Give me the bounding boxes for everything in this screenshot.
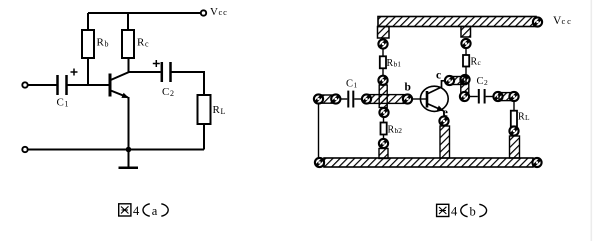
- svg-text:C: C: [477, 76, 484, 87]
- capacitor C2: [162, 62, 171, 82]
- svg-text:a: a: [152, 204, 158, 218]
- eyelet RL top node: [509, 92, 518, 101]
- junction dot (a): [126, 147, 132, 153]
- eyelet collector node: [445, 76, 454, 85]
- wire C1 to base: [67, 84, 111, 86]
- eyelet below RL (b): [509, 126, 518, 135]
- stub RL to ground bar: [510, 136, 520, 158]
- resistor Rb2: [381, 123, 387, 135]
- svg-text:b: b: [470, 205, 476, 219]
- input terminal (a): [22, 82, 27, 87]
- ground-right eyelet: [532, 158, 541, 167]
- wire C2 to RL: [171, 72, 205, 95]
- svg-text:c: c: [145, 40, 149, 49]
- svg-text:V: V: [210, 6, 218, 18]
- eyelet node b: [403, 94, 412, 103]
- plus sign C2: [153, 60, 160, 67]
- svg-text:b: b: [105, 40, 109, 49]
- ground-left eyelet: [315, 158, 324, 167]
- svg-text:e: e: [443, 107, 448, 119]
- wire b eyelet to base: [412, 98, 427, 100]
- plus sign C1: [71, 69, 78, 76]
- faint page edge line: [591, 0, 593, 241]
- eyelet left of base junction: [362, 94, 371, 103]
- eyelet emitter node: [439, 116, 448, 125]
- label Rc: [137, 37, 149, 49]
- svg-text:cc: cc: [219, 7, 228, 17]
- top bus bar (b): [378, 17, 536, 27]
- transistor Q1 (b) emitter stroke with arrow: [427, 104, 444, 118]
- svg-text:L: L: [221, 107, 226, 116]
- svg-text:C: C: [346, 79, 353, 90]
- Vcc eyelet terminal (b): [533, 17, 542, 26]
- resistor RL (b): [511, 111, 517, 127]
- svg-text:2: 2: [484, 78, 488, 87]
- Vcc label (b): [553, 15, 573, 27]
- wire Rc bottom lead (b): [465, 67, 467, 76]
- wire RL top lead (b): [513, 101, 515, 111]
- svg-text:L: L: [525, 113, 530, 122]
- stub emitter to ground bar: [440, 126, 450, 158]
- Vcc terminal (a): [201, 10, 206, 15]
- wire Rc top lead: [127, 13, 129, 30]
- resistor Rb1: [380, 56, 386, 68]
- label C1 (b): [346, 79, 358, 90]
- wire input pair to C1: [341, 98, 348, 100]
- capacitor C1: [58, 75, 67, 95]
- stub Rb2 to ground bar: [379, 149, 388, 159]
- ground: [119, 150, 139, 168]
- svg-text:R: R: [471, 57, 478, 68]
- stub bar to Rb1: [378, 27, 390, 39]
- input eyelet pair with hatched link: [314, 94, 341, 103]
- svg-text:R: R: [387, 58, 394, 69]
- label c: [436, 70, 441, 82]
- eyelet above Rc: [461, 39, 470, 48]
- svg-text:R: R: [137, 37, 145, 49]
- svg-text:4: 4: [451, 205, 458, 219]
- wire Rc top lead (b): [465, 48, 467, 55]
- svg-text:b: b: [405, 82, 411, 94]
- hatched link to RL node: [499, 93, 513, 101]
- svg-text:1: 1: [65, 100, 69, 109]
- wire C1 to base junction: [354, 98, 361, 100]
- wire top supply rail (a): [88, 12, 201, 14]
- figure label 图4(b): [437, 204, 487, 218]
- eyelet above Rb1: [378, 39, 387, 48]
- wire collector to C2: [129, 71, 161, 73]
- capacitor C1 (b): [348, 91, 353, 108]
- bottom bus bar (b): [324, 158, 533, 167]
- Vcc label (a): [210, 6, 228, 18]
- transistor Q1 (b) circle: [420, 86, 448, 111]
- wire Rb2 top lead: [383, 117, 385, 123]
- transistor Q1 base bar: [109, 74, 112, 97]
- svg-text:C: C: [162, 86, 169, 98]
- transistor Q1 (b) base bar: [426, 91, 429, 108]
- eyelet below base junction: [379, 108, 388, 117]
- figure label 图4(a): [119, 204, 169, 218]
- capacitor C2 (b): [479, 89, 485, 104]
- label C1 (a): [57, 97, 69, 109]
- svg-text:2: 2: [170, 89, 174, 98]
- label C2 (a): [162, 86, 174, 98]
- resistor Rc (b): [463, 55, 469, 67]
- svg-text:R: R: [518, 112, 525, 123]
- svg-text:R: R: [97, 37, 105, 49]
- label Rb2: [388, 125, 403, 136]
- label Rc (b): [471, 57, 482, 68]
- transistor Q1 (b) collector stroke and wire: [427, 81, 446, 94]
- base junction vertical hatched link: [379, 85, 387, 108]
- eyelet below Rb2: [379, 139, 388, 148]
- resistor Rb: [82, 30, 94, 58]
- label Rb: [97, 37, 109, 49]
- svg-text:c: c: [436, 70, 441, 82]
- label Rb1: [387, 58, 402, 69]
- wire input to C1: [28, 84, 57, 86]
- resistor RL: [198, 95, 211, 124]
- transistor Q1 emitter stroke with arrow: [110, 90, 130, 98]
- wire C2 to RL node: [486, 96, 493, 98]
- svg-text:4: 4: [133, 204, 140, 218]
- transistor Q1 collector stroke: [110, 72, 130, 81]
- svg-text:C: C: [57, 97, 64, 109]
- wire Rb1 bottom lead: [382, 68, 384, 76]
- eyelet C2 left node: [460, 92, 469, 101]
- eyelet below Rb1: [378, 76, 387, 85]
- svg-text:cc: cc: [562, 16, 573, 26]
- wire RL bottom lead: [203, 124, 205, 150]
- svg-text:b2: b2: [395, 126, 403, 135]
- resistor Rc: [122, 30, 134, 58]
- label e: [443, 107, 448, 119]
- wire Rb top lead: [87, 13, 89, 30]
- wire Rc bottom lead: [128, 58, 130, 73]
- svg-text:R: R: [388, 125, 395, 136]
- hatched link collector to Rc: [448, 77, 466, 85]
- wire emitter down: [128, 97, 130, 150]
- wire Rb bottom lead: [87, 58, 89, 85]
- base junction horizontal hatched link: [369, 95, 404, 104]
- wire to C2 (b): [470, 96, 478, 98]
- bottom rail (a): [28, 149, 204, 151]
- hatched link Rc node down to C2 node: [461, 83, 469, 93]
- label RL (a): [213, 104, 226, 116]
- svg-text:1: 1: [354, 81, 358, 90]
- wire Rb1 top lead: [382, 49, 384, 57]
- label C2 (b): [477, 76, 489, 87]
- label b: [405, 82, 411, 94]
- svg-text:R: R: [213, 104, 221, 116]
- stub bar to Rc: [461, 27, 471, 38]
- eyelet C2 right node: [493, 92, 502, 101]
- eyelet below Rc (b): [460, 75, 469, 84]
- bottom-left terminal (a): [22, 147, 27, 152]
- svg-text:b1: b1: [394, 60, 402, 69]
- wire Rb2 bottom lead: [383, 135, 385, 140]
- label RL (b): [518, 112, 530, 123]
- wire left input down to ground bar: [318, 104, 320, 158]
